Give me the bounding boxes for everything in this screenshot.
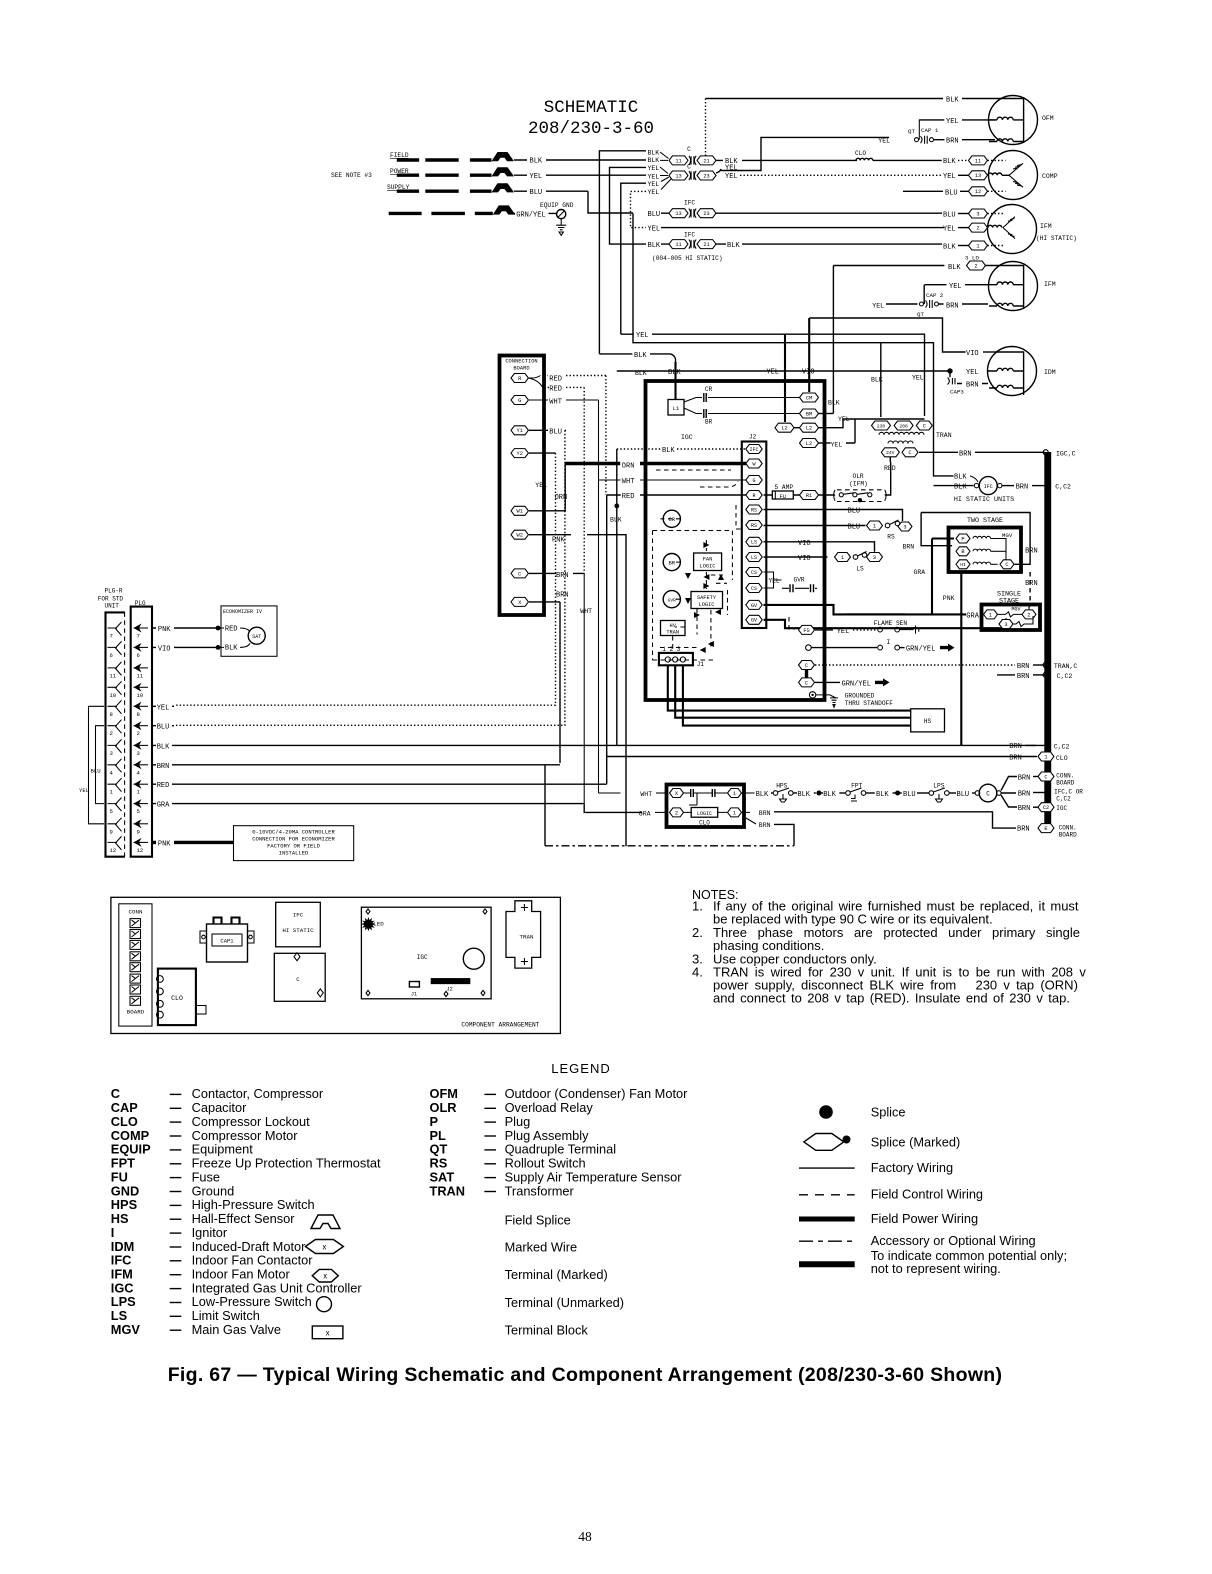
svg-text:Ground: Ground xyxy=(192,1183,235,1198)
wire BRN drop to accessory rail xyxy=(544,765,546,846)
svg-text:YEL: YEL xyxy=(648,181,660,188)
gas valve B coil xyxy=(956,547,970,556)
svg-text:IGC: IGC xyxy=(681,434,693,441)
svg-text:3: 3 xyxy=(976,211,979,217)
field power wire L2 dashes xyxy=(397,173,492,176)
svg-text:YEL: YEL xyxy=(943,226,956,234)
svg-text:PL: PL xyxy=(430,1128,447,1143)
svg-text:BLK: BLK xyxy=(610,517,622,524)
svg-text:BLU: BLU xyxy=(945,189,958,197)
gas valve P coil xyxy=(956,534,970,543)
svg-text:BLU: BLU xyxy=(848,524,861,532)
svg-text:IGC: IGC xyxy=(111,1280,134,1295)
BR relay circle xyxy=(663,554,680,571)
svg-text:BLK: BLK xyxy=(954,473,967,481)
TRAN (arrangement) xyxy=(506,901,541,968)
svg-text:CAP 1: CAP 1 xyxy=(921,127,939,134)
CM terminal xyxy=(800,393,819,402)
svg-text:1: 1 xyxy=(841,555,844,561)
wire GV1 to gas valve xyxy=(764,605,933,615)
svg-text:Y2: Y2 xyxy=(517,451,523,457)
connection board terminal W1 xyxy=(511,506,528,515)
wire PNK from HI down xyxy=(960,572,962,745)
svg-text:YEL: YEL xyxy=(648,173,660,180)
svg-text:L2: L2 xyxy=(806,426,812,432)
svg-text:RED: RED xyxy=(549,376,562,384)
CLO lockout box xyxy=(667,785,745,828)
legend splice marked symbol xyxy=(804,1134,844,1151)
svg-text:BRN: BRN xyxy=(1018,775,1031,783)
PLG pin 9 xyxy=(134,823,149,825)
PLG-R pin 3 xyxy=(108,739,122,753)
svg-text:BLK: BLK xyxy=(797,791,810,799)
svg-text:CLO: CLO xyxy=(111,1114,138,1129)
CLO LOGIC box xyxy=(691,808,718,818)
svg-text:3: 3 xyxy=(903,524,906,530)
L1 terminal block xyxy=(668,400,684,416)
svg-text:CAP1: CAP1 xyxy=(220,938,234,945)
svg-text:2: 2 xyxy=(1027,612,1030,618)
svg-text:11: 11 xyxy=(110,672,117,679)
svg-text:208/230-3-60: 208/230-3-60 xyxy=(528,119,654,139)
J2 terminal GV xyxy=(746,615,762,624)
svg-text:2.: 2. xyxy=(692,925,703,940)
OFM motor xyxy=(989,96,1038,145)
svg-text:CONN.: CONN. xyxy=(1056,773,1074,780)
svg-text:BOARD: BOARD xyxy=(1056,780,1074,787)
TRAN primary coil xyxy=(879,432,924,435)
svg-text:OFM: OFM xyxy=(430,1086,458,1101)
svg-text:HI STATIC: HI STATIC xyxy=(282,927,314,934)
svg-text:3: 3 xyxy=(137,750,140,757)
svg-text:GRN/YEL: GRN/YEL xyxy=(516,211,545,219)
svg-text:BRN: BRN xyxy=(1009,755,1022,763)
svg-text:BOARD: BOARD xyxy=(513,366,529,372)
svg-text:BRN: BRN xyxy=(1025,548,1038,556)
svg-text:Field Splice: Field Splice xyxy=(505,1213,571,1228)
svg-text:YEL: YEL xyxy=(838,416,850,423)
svg-text:YEL: YEL xyxy=(766,369,779,377)
wire WHT into CLO xyxy=(599,792,621,794)
svg-text:GRN/YEL: GRN/YEL xyxy=(906,646,935,654)
svg-text:BLK: BLK xyxy=(876,791,889,799)
svg-text:CONN: CONN xyxy=(129,909,143,916)
svg-text:CONNECTION: CONNECTION xyxy=(505,359,537,365)
svg-text:Quadruple Terminal: Quadruple Terminal xyxy=(505,1142,616,1157)
svg-text:COMPONENT ARRANGEMENT: COMPONENT ARRANGEMENT xyxy=(461,1022,539,1029)
COMP motor xyxy=(989,151,1038,200)
legend splice symbol xyxy=(819,1105,833,1119)
svg-text:FOR STD: FOR STD xyxy=(98,596,124,603)
svg-text:YEL: YEL xyxy=(878,137,890,144)
wire GRA vertical xyxy=(932,539,966,615)
svg-text:Indoor Fan Motor: Indoor Fan Motor xyxy=(192,1267,291,1282)
svg-text:EQUIP GND: EQUIP GND xyxy=(540,202,574,209)
svg-text:BLK: BLK xyxy=(225,644,238,652)
svg-text:8: 8 xyxy=(137,711,140,718)
svg-text:1: 1 xyxy=(733,810,736,816)
svg-text:BLK: BLK xyxy=(954,484,967,492)
wire RED from OLR to TRAN 24V tap xyxy=(885,462,891,495)
svg-text:YEL: YEL xyxy=(535,482,547,489)
J2 terminal CS xyxy=(746,584,762,593)
svg-text:C: C xyxy=(986,791,990,798)
svg-text:LPS: LPS xyxy=(111,1294,136,1309)
J2 terminal W xyxy=(746,459,762,468)
wire BRN dashed single stage xyxy=(1029,572,1031,602)
svg-text:L1: L1 xyxy=(673,405,680,412)
svg-text:SAT: SAT xyxy=(430,1169,455,1184)
svg-text:BLK: BLK xyxy=(530,158,543,166)
svg-text:Limit Switch: Limit Switch xyxy=(192,1308,260,1323)
svg-text:10: 10 xyxy=(137,692,144,699)
connection board terminal Y2 xyxy=(511,449,528,458)
svg-text:and connect to 208 v tap (RED): and connect to 208 v tap (RED). Insulate… xyxy=(713,991,1070,1006)
legend terminal marked symbol xyxy=(312,1269,338,1282)
svg-text:YEL: YEL xyxy=(943,173,956,181)
J2 terminal RS xyxy=(746,521,762,530)
svg-text:OLR: OLR xyxy=(853,473,864,480)
svg-text:CM: CM xyxy=(806,395,812,401)
svg-text:Overload Relay: Overload Relay xyxy=(505,1100,594,1115)
svg-text:CR: CR xyxy=(705,386,713,393)
svg-text:24V: 24V xyxy=(886,450,895,456)
C terminal upper xyxy=(799,661,815,670)
wire J1-1 to HS xyxy=(668,666,911,711)
svg-text:BOARD: BOARD xyxy=(127,1009,145,1016)
RS rollout switch xyxy=(867,521,883,530)
svg-text:BRN: BRN xyxy=(157,763,170,771)
PLG-R pin 9 xyxy=(108,818,122,832)
PLG connector body xyxy=(131,607,152,857)
IGC dashed control detail xyxy=(656,470,738,487)
svg-text:LED: LED xyxy=(373,921,384,928)
svg-text:BLK: BLK xyxy=(634,352,647,360)
HV TRAN dashed drop xyxy=(672,636,674,650)
component arrangement outer box xyxy=(111,897,561,1033)
svg-text:YEL: YEL xyxy=(636,332,649,340)
svg-text:Indoor Fan Contactor: Indoor Fan Contactor xyxy=(192,1253,314,1268)
svg-text:QT: QT xyxy=(908,128,915,135)
R1 terminal xyxy=(800,491,819,500)
svg-text:Equipment: Equipment xyxy=(192,1142,254,1157)
svg-text:WHT: WHT xyxy=(580,608,592,615)
svg-text:12: 12 xyxy=(975,189,981,195)
svg-text:Capacitor: Capacitor xyxy=(192,1100,248,1115)
svg-text:13: 13 xyxy=(975,173,981,179)
grounded-thru-standoff terminal xyxy=(809,692,815,698)
svg-text:I: I xyxy=(111,1225,115,1240)
svg-text:IFC,C OR: IFC,C OR xyxy=(1054,789,1083,796)
svg-text:3: 3 xyxy=(873,555,876,561)
PLG pin 11 xyxy=(134,667,149,669)
CLO capacitors xyxy=(691,789,694,797)
LS limit switch xyxy=(835,553,851,562)
svg-text:48: 48 xyxy=(578,1529,592,1544)
wire BRN C,C2 row2 xyxy=(997,674,1015,676)
J2 terminal R xyxy=(746,491,762,500)
svg-text:11: 11 xyxy=(675,158,681,164)
svg-text:TRAN,C: TRAN,C xyxy=(1054,663,1078,670)
PLG-R pin 11 xyxy=(108,662,122,676)
equip ground symbol xyxy=(557,210,566,219)
svg-text:2: 2 xyxy=(976,226,979,232)
accessory dashed rail xyxy=(545,845,794,847)
svg-text:P: P xyxy=(961,536,964,542)
svg-text:W2: W2 xyxy=(517,533,523,539)
svg-text:BRN: BRN xyxy=(902,544,914,551)
svg-text:BRN: BRN xyxy=(1016,484,1029,492)
wire BLK riser from BM terminal xyxy=(832,266,834,414)
svg-text:HI: HI xyxy=(960,562,966,568)
PLG-R pin 4 xyxy=(108,759,122,773)
svg-text:BLU: BLU xyxy=(648,211,661,219)
svg-text:Splice: Splice xyxy=(871,1105,906,1120)
svg-text:IFM: IFM xyxy=(1044,281,1056,288)
svg-text:LOGIC: LOGIC xyxy=(697,811,712,817)
svg-text:GND: GND xyxy=(111,1183,139,1198)
SINGLE STAGE box xyxy=(982,605,1041,631)
C terminal lower xyxy=(799,678,815,687)
FS terminal flame sensor xyxy=(799,625,815,634)
svg-text:RS: RS xyxy=(751,507,757,513)
wire BLK#1 vertical xyxy=(599,151,646,354)
PLG-R pin 10 xyxy=(108,681,122,695)
svg-text:LS: LS xyxy=(856,566,864,573)
svg-text:C: C xyxy=(687,164,691,171)
svg-text:E: E xyxy=(1044,826,1047,832)
wire dotted C to TRAN,C bar xyxy=(815,664,1015,666)
svg-text:BLK: BLK xyxy=(943,158,956,166)
svg-text:FU: FU xyxy=(780,494,786,500)
svg-text:FS: FS xyxy=(803,628,809,634)
svg-text:BLU: BLU xyxy=(848,508,861,516)
svg-text:GVR: GVR xyxy=(794,577,805,584)
svg-text:YEL: YEL xyxy=(949,283,962,291)
svg-text:C: C xyxy=(1005,562,1008,568)
svg-text:BM: BM xyxy=(806,411,812,417)
svg-text:Low-Pressure Switch: Low-Pressure Switch xyxy=(192,1294,312,1309)
svg-text:YEL: YEL xyxy=(648,165,660,172)
svg-text:Accessory or Optional Wiring: Accessory or Optional Wiring xyxy=(871,1233,1036,1248)
svg-text:YEL: YEL xyxy=(769,578,780,585)
wire BRN CLO output row xyxy=(742,811,750,813)
wire BRN to gas valve B xyxy=(921,513,952,546)
svg-text:FU: FU xyxy=(111,1169,128,1184)
IFC contactor coil xyxy=(974,483,978,487)
CR relay circle xyxy=(663,510,680,527)
svg-text:4.: 4. xyxy=(692,965,703,980)
svg-text:FLAME SEN: FLAME SEN xyxy=(874,620,908,627)
PLG pin 10 xyxy=(134,686,149,688)
svg-text:BLU: BLU xyxy=(903,791,916,799)
svg-text:not to represent wiring.: not to represent wiring. xyxy=(871,1261,1001,1276)
svg-text:1: 1 xyxy=(989,612,992,618)
svg-text:CAP 2: CAP 2 xyxy=(926,292,944,299)
connection board terminal R xyxy=(511,374,528,383)
svg-text:GVR: GVR xyxy=(668,597,677,603)
wire BLK riser from contactor to OFM line xyxy=(705,99,707,156)
CLO terminal 2 xyxy=(670,808,684,817)
PLG pin 6 xyxy=(134,646,149,648)
svg-text:BLU: BLU xyxy=(549,429,562,437)
svg-text:7: 7 xyxy=(110,633,113,640)
svg-text:CLO: CLO xyxy=(171,995,183,1002)
svg-text:Freeze Up Protection Thermosta: Freeze Up Protection Thermostat xyxy=(192,1156,381,1171)
svg-text:BLK: BLK xyxy=(823,791,836,799)
svg-text:Compressor Motor: Compressor Motor xyxy=(192,1128,299,1143)
svg-text:LEGEND: LEGEND xyxy=(551,1061,610,1076)
svg-text:C: C xyxy=(923,423,926,429)
svg-text:LOGIC: LOGIC xyxy=(699,602,715,608)
svg-text:21: 21 xyxy=(703,158,709,164)
board corner marks xyxy=(366,909,487,997)
svg-text:2: 2 xyxy=(137,730,140,737)
svg-text:BLK: BLK xyxy=(648,149,660,156)
PLG pin 2 xyxy=(134,725,149,727)
svg-text:1: 1 xyxy=(976,243,979,249)
wire BRN two-stage C loop xyxy=(921,513,1030,565)
PLG pin 12 xyxy=(134,841,149,843)
svg-text:LS: LS xyxy=(751,555,757,561)
PLG-R pin 8 xyxy=(108,700,122,714)
svg-text:BLK: BLK xyxy=(948,264,961,272)
I ignitor terminal row xyxy=(806,645,812,651)
wire VIO J2 LS1 xyxy=(764,542,875,552)
PLG pin 7 xyxy=(134,627,149,629)
svg-text:8: 8 xyxy=(110,711,113,718)
wire YEL#2 vertical xyxy=(621,183,646,334)
svg-text:BRN: BRN xyxy=(556,592,569,600)
svg-text:Hall-Effect Sensor: Hall-Effect Sensor xyxy=(192,1211,296,1226)
wire YEL#3 dotted vertical xyxy=(631,191,647,227)
svg-text:HI STATIC UNITS: HI STATIC UNITS xyxy=(954,496,1014,504)
wire GRN/YEL from C xyxy=(815,681,840,683)
svg-text:5: 5 xyxy=(110,808,113,815)
svg-text:Fig. 67 — Typical Wiring Schem: Fig. 67 — Typical Wiring Schematic and C… xyxy=(168,1364,1003,1386)
svg-text:CLO: CLO xyxy=(699,820,710,827)
svg-text:IFM: IFM xyxy=(1040,223,1052,230)
svg-text:BRN: BRN xyxy=(966,382,979,390)
svg-text:SEE NOTE #3: SEE NOTE #3 xyxy=(331,172,372,179)
svg-text:BRN: BRN xyxy=(1018,805,1031,813)
wire GV2 to single stage xyxy=(764,620,1007,628)
svg-text:Supply Air Temperature Sensor: Supply Air Temperature Sensor xyxy=(505,1169,683,1184)
svg-text:SAFETY: SAFETY xyxy=(697,595,717,601)
svg-text:TRAN: TRAN xyxy=(666,630,679,636)
svg-text:OLR: OLR xyxy=(430,1100,457,1115)
wire GRA to single stage xyxy=(845,613,905,615)
GVR relay circle xyxy=(663,591,680,608)
svg-text:C2: C2 xyxy=(1043,805,1049,811)
svg-text:IFC: IFC xyxy=(984,484,993,490)
svg-text:RS: RS xyxy=(887,534,895,541)
svg-text:Field Control Wiring: Field Control Wiring xyxy=(871,1187,983,1202)
svg-text:High-Pressure Switch: High-Pressure Switch xyxy=(192,1197,315,1212)
PLG-R pin 2 xyxy=(108,720,122,734)
svg-text:QT: QT xyxy=(917,311,924,318)
svg-text:COMP: COMP xyxy=(1042,173,1058,180)
legend terminal unmarked symbol xyxy=(317,1297,332,1312)
svg-text:BLU: BLU xyxy=(157,724,170,732)
svg-text:x: x xyxy=(326,1328,330,1337)
IGC dashed arrows xyxy=(703,542,709,548)
svg-text:GRN/YEL: GRN/YEL xyxy=(842,680,871,688)
svg-text:RED: RED xyxy=(225,626,238,634)
svg-text:IFC: IFC xyxy=(293,912,304,919)
CLO terminal 1 top xyxy=(728,789,742,798)
J2 terminal RS xyxy=(746,505,762,514)
svg-text:IGC: IGC xyxy=(1056,805,1067,812)
svg-text:Compressor Lockout: Compressor Lockout xyxy=(192,1114,311,1129)
PLG-R pin 7 xyxy=(108,622,122,636)
svg-text:BRN: BRN xyxy=(759,822,771,829)
0-10VDC controller box xyxy=(234,826,354,861)
svg-text:9: 9 xyxy=(110,828,113,835)
svg-text:BLU: BLU xyxy=(530,189,543,197)
connection board terminal Y1 xyxy=(511,426,528,435)
svg-text:SAT: SAT xyxy=(252,634,261,640)
svg-text:Main Gas Valve: Main Gas Valve xyxy=(192,1322,281,1337)
svg-text:(004-005 HI STATIC): (004-005 HI STATIC) xyxy=(652,255,723,262)
svg-text:BLK: BLK xyxy=(727,242,740,250)
svg-text:YEL: YEL xyxy=(872,302,884,309)
svg-text:HS: HS xyxy=(111,1211,129,1226)
svg-text:IFC: IFC xyxy=(749,447,758,453)
svg-text:BLK: BLK xyxy=(828,400,840,407)
common potential bar xyxy=(1044,452,1051,831)
CONNECTION BOARD box xyxy=(500,356,545,616)
svg-text:10: 10 xyxy=(110,692,117,699)
C coil fan-out wires xyxy=(1001,777,1017,808)
svg-text:PLG-R: PLG-R xyxy=(105,588,123,595)
wire VIO J2 LS2 to limit switch xyxy=(764,556,828,558)
svg-text:12: 12 xyxy=(110,847,117,854)
svg-text:LS: LS xyxy=(111,1308,128,1323)
svg-text:CS: CS xyxy=(751,570,757,576)
svg-text:I: I xyxy=(887,639,891,646)
IGC internal dashed logic links xyxy=(653,505,743,660)
svg-text:C,C2: C,C2 xyxy=(1055,484,1071,491)
svg-text:SCHEMATIC: SCHEMATIC xyxy=(544,98,639,118)
wire BLK#3 vertical xyxy=(610,167,647,244)
connection board terminal X xyxy=(511,597,528,606)
gas valve HI coil xyxy=(956,560,970,569)
svg-text:IGC,C: IGC,C xyxy=(1056,450,1076,457)
field power wire L3 dashes xyxy=(397,189,492,192)
svg-text:C: C xyxy=(1044,774,1047,780)
svg-text:C: C xyxy=(687,146,691,153)
legend terminal block symbol xyxy=(312,1326,343,1339)
svg-text:11: 11 xyxy=(675,242,681,248)
single stage terminal 2 xyxy=(1022,610,1036,619)
svg-text:BRN: BRN xyxy=(1017,663,1030,671)
svg-text:YEL: YEL xyxy=(648,226,661,234)
svg-text:YEL: YEL xyxy=(837,628,850,636)
svg-text:BRN: BRN xyxy=(946,138,959,146)
svg-text:BLK: BLK xyxy=(946,97,959,105)
svg-text:2: 2 xyxy=(675,810,678,816)
svg-text:YEL: YEL xyxy=(725,173,738,181)
svg-text:YEL: YEL xyxy=(157,704,170,712)
svg-text:R: R xyxy=(752,493,755,499)
svg-text:FACTORY OR FIELD: FACTORY OR FIELD xyxy=(267,843,321,850)
svg-text:5: 5 xyxy=(137,808,140,815)
conn board (arrangement) xyxy=(119,904,152,1026)
svg-text:Ignitor: Ignitor xyxy=(192,1225,228,1240)
svg-text:HV: HV xyxy=(670,623,677,629)
connection board terminal W2 xyxy=(511,530,528,539)
